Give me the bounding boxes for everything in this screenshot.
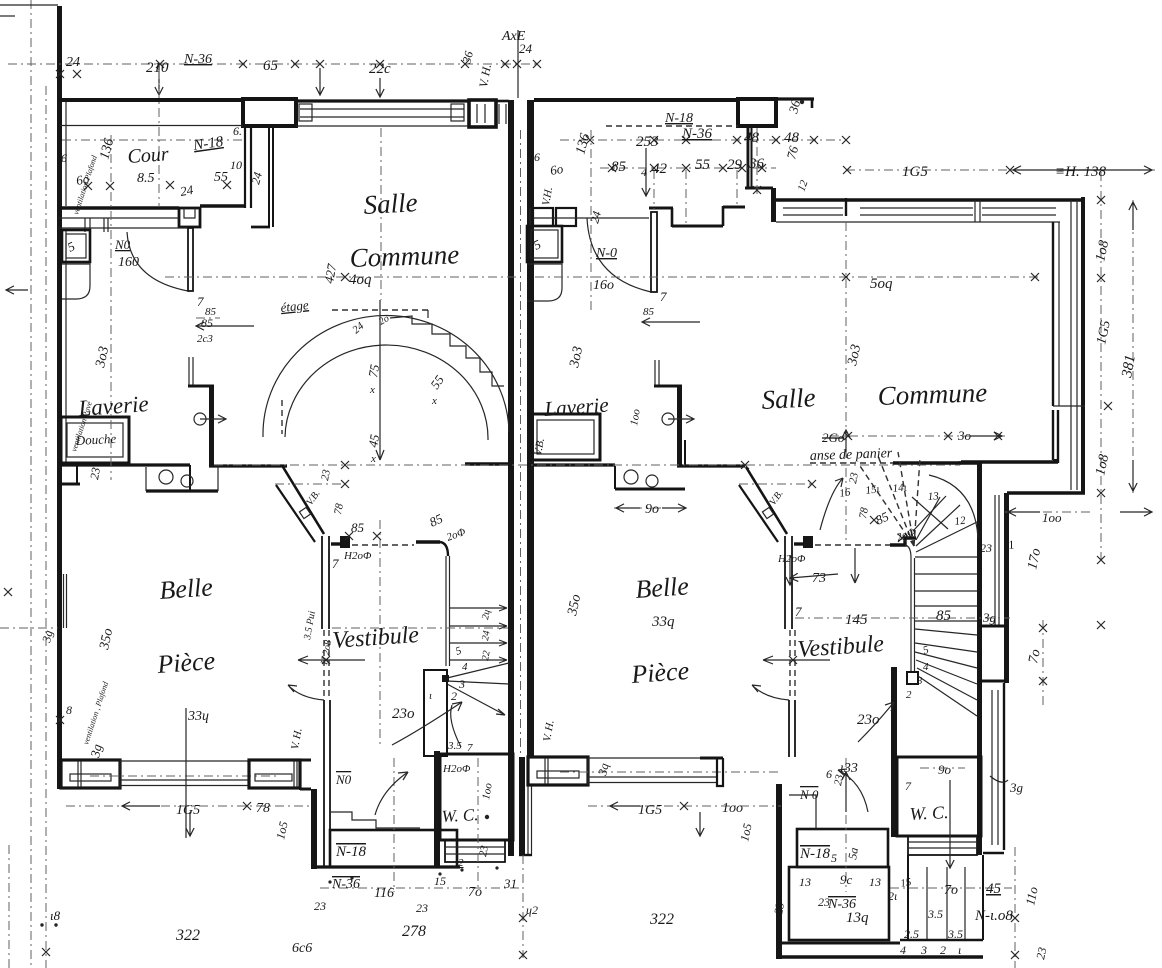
- svg-text:55: 55: [695, 157, 711, 173]
- wc steps below: [445, 840, 505, 862]
- left facade window lines middle: [120, 760, 249, 762]
- svg-text:Belle: Belle: [634, 571, 689, 604]
- svg-text:7: 7: [795, 604, 802, 619]
- svg-text:7: 7: [660, 289, 667, 304]
- bottom left small marks: [40, 923, 43, 926]
- porch bottom wall: [311, 865, 460, 868]
- right cour top wall: [534, 98, 738, 102]
- svg-text:24: 24: [66, 55, 80, 70]
- svg-text:2.5: 2.5: [904, 927, 919, 941]
- cour gate column: [179, 208, 200, 227]
- svg-text:Pièce: Pièce: [155, 646, 216, 679]
- svg-text:H2oΦ: H2oΦ: [442, 763, 471, 775]
- svg-text:H2oΦ: H2oΦ: [777, 553, 806, 565]
- svg-text:7: 7: [332, 556, 339, 571]
- facade axis dash left: [90, 775, 280, 777]
- laverie south wall: [61, 463, 190, 466]
- left wc axis: [477, 758, 479, 888]
- right vestibule west wall lower: [788, 700, 790, 757]
- svg-text:210: 210: [146, 60, 169, 76]
- right stair fan from top pivot: [916, 522, 977, 552]
- svg-text:85: 85: [936, 608, 952, 624]
- V.B. box right laverie: [531, 414, 600, 460]
- right annexe lines: [533, 217, 649, 219]
- right wc cistern circle: [662, 413, 674, 425]
- svg-text:2: 2: [451, 689, 457, 703]
- etage stair arc outer: [263, 316, 509, 437]
- right stair treads lower fan: [915, 629, 977, 635]
- svg-text:ι: ι: [894, 689, 897, 701]
- svg-text:24: 24: [519, 41, 533, 56]
- door swing arc cour: [127, 232, 188, 291]
- svg-text:4: 4: [462, 661, 468, 673]
- etage arc end dashes: [281, 400, 283, 434]
- svg-text:23: 23: [87, 466, 103, 480]
- svg-text:29: 29: [727, 157, 743, 173]
- svg-text:ι: ι: [958, 943, 961, 957]
- right cour bottom stepped walls: [649, 207, 673, 210]
- svg-text:3g: 3g: [1009, 780, 1024, 795]
- facade dim axis left: [185, 708, 187, 838]
- right house southeast step wall: [1007, 491, 1085, 494]
- left vest door swing arc: [288, 685, 324, 700]
- svg-text:Salle: Salle: [363, 187, 418, 220]
- right porch west wall: [776, 784, 782, 959]
- svg-text:322: 322: [175, 927, 200, 944]
- svg-text:2: 2: [906, 689, 912, 701]
- svg-text:6.: 6.: [233, 124, 242, 138]
- 165 window dim line right: [1005, 511, 1090, 513]
- 100 dim arrows right east: [1097, 621, 1105, 629]
- svg-text:322: 322: [649, 911, 674, 928]
- top wall of left cour: [58, 98, 244, 102]
- right stair dashed winders above: [860, 466, 914, 546]
- svg-text:5oq: 5oq: [870, 276, 893, 292]
- party axis dash through gap: [520, 130, 522, 755]
- 90 dim right service: [614, 507, 688, 509]
- open door leaf from cour: [188, 228, 193, 291]
- cupboard below sink: [62, 264, 90, 299]
- front dimension line right house: [588, 805, 781, 807]
- site boundary thin line left: [45, 86, 47, 968]
- label 90 right wc top dim: [920, 767, 965, 769]
- svg-text:6: 6: [826, 767, 832, 781]
- vestibule west wall lower: [323, 700, 325, 757]
- svg-text:22c: 22c: [369, 61, 391, 77]
- laverie wall jog: [188, 385, 214, 388]
- inner face of top wall: [296, 125, 469, 127]
- east window lower: [991, 690, 993, 845]
- svg-text:31: 31: [503, 876, 517, 891]
- right facade east jog at porch: [717, 758, 723, 786]
- svg-text:278: 278: [402, 923, 426, 940]
- dim arrow 210: [155, 64, 163, 95]
- douche box in laverie: [61, 417, 129, 463]
- right wc west wall: [891, 667, 897, 837]
- svg-text:7o: 7o: [944, 883, 958, 898]
- svg-text:13: 13: [869, 875, 881, 889]
- svg-text:23: 23: [771, 901, 787, 915]
- entry box N-18 left house: [330, 830, 457, 867]
- svg-text:3: 3: [916, 675, 923, 687]
- svg-text:2ι: 2ι: [888, 889, 897, 903]
- right stair east wall: [977, 462, 982, 855]
- plumbing circle fixtures: [159, 470, 173, 484]
- svg-text:9o: 9o: [938, 762, 952, 777]
- left wc door arc: [451, 705, 461, 747]
- front yard separation wall: [519, 757, 525, 856]
- small vent square on canted wall: [299, 507, 310, 518]
- sink box right house: [527, 226, 562, 262]
- salle commune south wall left house east piece: [465, 462, 509, 465]
- right laverie east wall upper: [654, 360, 656, 385]
- svg-text:9c: 9c: [840, 872, 853, 887]
- svg-text:anse de panier: anse de panier: [810, 446, 893, 464]
- svg-text:22: 22: [480, 650, 493, 662]
- right stair west string: [905, 545, 911, 558]
- dim arrow 220: [316, 68, 324, 95]
- annexe strip lines below cour: [58, 217, 179, 219]
- top wall right house outer: [776, 97, 814, 100]
- svg-text:Laverie: Laverie: [543, 393, 610, 421]
- right door blob: [803, 536, 813, 548]
- door leaf blob vestibule north: [340, 536, 350, 548]
- wire: [0, 4, 58, 6]
- cour inner top face line: [60, 125, 243, 127]
- svg-text:2: 2: [458, 857, 464, 869]
- right service strip: [614, 466, 616, 489]
- svg-text:7: 7: [905, 779, 912, 793]
- svg-text:7o: 7o: [468, 885, 482, 900]
- stair west string: [445, 556, 447, 666]
- porch steps profile: [330, 812, 420, 828]
- svg-text:7: 7: [467, 742, 473, 754]
- svg-text:N-36: N-36: [183, 52, 212, 67]
- laverie east wall upper: [188, 357, 190, 385]
- svg-text:160: 160: [118, 255, 139, 270]
- door axis dashes right: [845, 430, 847, 545]
- svg-text:2c3: 2c3: [197, 333, 213, 345]
- stairwell corner curve: [440, 542, 448, 556]
- vestibule west wall upper: [321, 536, 323, 629]
- svg-text:3.5: 3.5: [927, 907, 943, 921]
- salle commune south wall right house: [810, 462, 893, 464]
- svg-text:1G5: 1G5: [902, 164, 928, 180]
- right vestibule north wall: [794, 542, 804, 545]
- cour bottom wall east part: [200, 204, 244, 207]
- right wc steps below: [908, 836, 977, 855]
- right porch bottom slab: [781, 942, 900, 945]
- stairwell cross mark: [912, 496, 948, 531]
- svg-text:Commune: Commune: [877, 377, 987, 411]
- svg-text:1oo: 1oo: [722, 801, 743, 816]
- etage stair arc inner: [285, 345, 488, 440]
- corridor bottom wall: [251, 226, 270, 229]
- svg-text:N0: N0: [335, 772, 352, 787]
- right wc box: [897, 757, 981, 836]
- right cour dim ticks: [608, 164, 616, 172]
- cour centre dash line: [62, 139, 245, 141]
- porch west wall left house: [311, 789, 317, 869]
- east wall sill at 681: [978, 680, 1009, 683]
- right vestibule west wall upper: [784, 536, 786, 629]
- svg-text:3o: 3o: [957, 428, 972, 443]
- bottom left dash line: [8, 845, 10, 968]
- svg-text:Pièce: Pièce: [629, 656, 690, 689]
- etage dashed landing line: [332, 309, 428, 311]
- svg-text:10: 10: [230, 158, 242, 172]
- anse de panier long axis: [214, 464, 960, 466]
- svg-text:W. C.: W. C.: [909, 802, 949, 824]
- svg-text:6: 6: [534, 150, 540, 164]
- left facade wall stub to porch: [300, 759, 311, 762]
- right house top wall west of pier: [606, 125, 738, 127]
- party wall right strip: [527, 100, 534, 758]
- right porch lower box N-36: [789, 867, 889, 940]
- cour bottom wall west part: [58, 206, 179, 209]
- salle commune 509 dimension line: [535, 276, 1040, 278]
- curved arrow stair left: [392, 702, 462, 745]
- cour east wall: [244, 126, 246, 208]
- svg-text:48: 48: [784, 130, 800, 146]
- cupboard below sink right: [527, 264, 562, 301]
- svg-text:3g: 3g: [982, 610, 997, 625]
- svg-text:Douche: Douche: [74, 431, 116, 448]
- right cour dim row line: [600, 167, 776, 169]
- svg-text:N 0: N 0: [799, 787, 819, 802]
- svg-text:3: 3: [920, 943, 927, 957]
- svg-text:23: 23: [314, 899, 326, 913]
- svg-text:23: 23: [416, 901, 428, 915]
- svg-text:x: x: [431, 395, 437, 407]
- svg-text:ɥ2: ɥ2: [526, 903, 538, 917]
- svg-text:1G5: 1G5: [638, 803, 662, 818]
- wire: [0, 15, 15, 17]
- right stair hall west wall: [677, 387, 682, 466]
- etage upper steps zigzag: [390, 316, 504, 386]
- svg-text:N-18: N-18: [335, 844, 367, 860]
- svg-text:36: 36: [748, 156, 765, 172]
- front dimension line left house: [66, 805, 311, 807]
- svg-text:13q: 13q: [846, 910, 869, 926]
- east wall bottom piece: [983, 852, 1004, 855]
- svg-text:48: 48: [744, 130, 760, 146]
- right vest door leaf dashes: [789, 630, 791, 699]
- svg-text:N-18: N-18: [799, 846, 831, 862]
- window in top wall of salle commune: [300, 108, 464, 110]
- wc cistern circle on stair hall wall: [194, 413, 206, 425]
- svg-text:Commune: Commune: [349, 239, 459, 273]
- svg-text:2Go: 2Go: [822, 430, 845, 445]
- svg-text:116: 116: [374, 886, 394, 901]
- right house east wall upper window section: [1052, 222, 1054, 406]
- svg-text:N-36: N-36: [681, 126, 713, 142]
- window jamb right: [451, 104, 464, 121]
- right house top wall inner face: [776, 221, 1060, 223]
- svg-text:N-ι.o8: N-ι.o8: [974, 908, 1013, 924]
- misc left edge arrow: [6, 286, 28, 294]
- ventilation slots in annexe strip: [84, 218, 86, 232]
- right laverie south wall: [527, 463, 615, 466]
- door axis dashes left: [379, 520, 381, 745]
- svg-text:6: 6: [61, 151, 67, 165]
- dim 76 axis: [756, 128, 758, 196]
- svg-text:42: 42: [652, 161, 668, 177]
- right porch entry box N-18: [797, 829, 888, 867]
- vestibule north wall east segment: [416, 540, 440, 544]
- svg-text:6c6: 6c6: [292, 941, 312, 956]
- left facade bay window west: [61, 760, 120, 788]
- arrow 85 horizontal left: [196, 322, 254, 330]
- top dimension line left house: [8, 63, 540, 65]
- salle commune 409 dimension line: [165, 276, 517, 278]
- arrow salle left down: [376, 300, 384, 460]
- svg-text:1G5: 1G5: [176, 803, 200, 818]
- toilet dot left wc: [485, 815, 489, 819]
- right porch dim verticals: [1014, 847, 1016, 968]
- left vest exit arrow: [298, 656, 365, 664]
- axe line: [517, 30, 519, 98]
- service strip walls below laverie: [209, 464, 287, 467]
- east wall sill at 628: [978, 625, 1009, 628]
- svg-text:2ɥ: 2ɥ: [480, 609, 493, 621]
- svg-text:33q: 33q: [651, 614, 675, 630]
- sink box on left wall: [62, 230, 90, 262]
- salle axis vertical right: [845, 222, 847, 430]
- chimney box top of left house: [469, 100, 496, 127]
- svg-text:65: 65: [263, 58, 279, 74]
- pier at top of left house: [243, 99, 296, 126]
- 30 dim ticks: [944, 432, 952, 440]
- right plumbing circles: [624, 470, 638, 484]
- svg-text:Salle: Salle: [761, 382, 816, 415]
- svg-text:2: 2: [940, 943, 946, 957]
- svg-text:12: 12: [954, 514, 967, 527]
- svg-text:4: 4: [641, 165, 647, 179]
- svg-text:7: 7: [197, 294, 204, 309]
- top wall of left salle commune: [296, 99, 469, 102]
- east dash line outer: [1100, 172, 1102, 560]
- svg-text:3.5: 3.5: [947, 927, 963, 941]
- svg-text:13: 13: [799, 875, 811, 889]
- svg-text:Cour: Cour: [127, 143, 170, 168]
- right house setback wall: [747, 126, 749, 188]
- svg-text:5a: 5a: [845, 846, 861, 860]
- left facade window east box: [249, 760, 300, 788]
- vent slot V.H. between chimney and party wall: [498, 104, 500, 124]
- svg-text:16o: 16o: [593, 278, 614, 293]
- vestibule north wall segment: [331, 542, 341, 545]
- right vest exit arrow: [763, 656, 830, 664]
- svg-text:H2oΦ: H2oΦ: [343, 550, 372, 562]
- svg-text:N0: N0: [114, 237, 131, 252]
- svg-text:W. C.: W. C.: [441, 805, 479, 826]
- svg-text:85: 85: [205, 306, 217, 318]
- left stair winder treads: [447, 663, 509, 678]
- open door leaf right cour: [651, 212, 657, 292]
- left boundary window: [63, 574, 65, 628]
- svg-text:85: 85: [611, 159, 627, 175]
- svg-text:145: 145: [845, 612, 868, 628]
- top right dimension line 165-138: [846, 169, 1155, 171]
- right vest 145 arrow: [851, 548, 859, 583]
- svg-text:14ι: 14ι: [892, 482, 907, 495]
- right facade middle window lines: [588, 757, 717, 759]
- svg-text:15ι: 15ι: [865, 483, 881, 497]
- svg-text:étage: étage: [280, 297, 310, 315]
- 260 dim line right salle: [830, 435, 1005, 437]
- svg-text:ι8: ι8: [50, 908, 61, 923]
- svg-text:253: 253: [636, 134, 659, 150]
- svg-text:23: 23: [980, 541, 992, 555]
- east ticks: [1104, 402, 1112, 410]
- vestibule door leaf dashes left: [323, 630, 325, 699]
- east dimension line 381: [1132, 200, 1134, 493]
- porch inner west wall: [323, 757, 325, 866]
- window jamb left: [299, 104, 312, 121]
- right canted wall: [746, 467, 787, 534]
- right wc entrance steps: [907, 855, 909, 940]
- left stair newel square: [442, 675, 449, 682]
- top dimension line right house: [560, 139, 846, 141]
- left boundary inner face: [65, 102, 67, 206]
- svg-text:85: 85: [643, 306, 655, 318]
- left party wall (west site wall): [57, 6, 62, 789]
- curved arrow right salle entry: [820, 478, 843, 530]
- right cour door axis: [590, 130, 592, 310]
- svg-text:4: 4: [923, 661, 929, 673]
- svg-text:24: 24: [480, 630, 493, 642]
- right house pier at party wall top: [738, 99, 776, 126]
- vestibule north wall door opening dashes: [352, 544, 414, 546]
- salle axis vertical left: [380, 128, 382, 300]
- wc west wall left house: [434, 751, 440, 867]
- left stair treads: [449, 605, 507, 611]
- left edge window sill line: [0, 627, 58, 629]
- svg-text:23o: 23o: [392, 706, 415, 722]
- svg-text:8.5: 8.5: [137, 171, 155, 186]
- lower dim line left porch: [320, 887, 523, 889]
- right house lower east wall: [1004, 493, 1009, 683]
- cour axis vertical: [110, 135, 112, 480]
- lower dim dots left: [328, 880, 331, 883]
- svg-text:4oq: 4oq: [349, 272, 372, 288]
- corridor east wall upper (salle west wall stub): [268, 127, 270, 227]
- stair hall west wall: [209, 387, 214, 466]
- svg-text:78: 78: [256, 801, 270, 816]
- arrow into vestibule left: [375, 772, 408, 815]
- facade axis dash right: [560, 771, 781, 773]
- svg-text:8: 8: [66, 703, 72, 717]
- right stair treads upper: [915, 556, 977, 558]
- curved arrow right stair: [858, 702, 894, 742]
- right house top wall window band: [783, 207, 843, 209]
- canted wall between stair hall and vestibule: [283, 467, 324, 534]
- site boundary dash-dot line far left: [30, 0, 32, 968]
- svg-text:5: 5: [831, 851, 837, 865]
- right porch dim line: [890, 887, 1012, 889]
- right east wall window sill at 406: [1053, 405, 1085, 407]
- svg-text:N-36: N-36: [331, 877, 360, 892]
- svg-text:Laverie: Laverie: [77, 391, 150, 421]
- door swing arc right cour: [587, 218, 651, 292]
- svg-text:1oo: 1oo: [1042, 510, 1062, 525]
- right cour dim verticals: [653, 170, 655, 210]
- salle east inner wall lower: [1053, 459, 1058, 461]
- right stair newel top: [890, 538, 916, 545]
- right porch door arc: [838, 770, 868, 812]
- svg-text:9o: 9o: [645, 502, 659, 517]
